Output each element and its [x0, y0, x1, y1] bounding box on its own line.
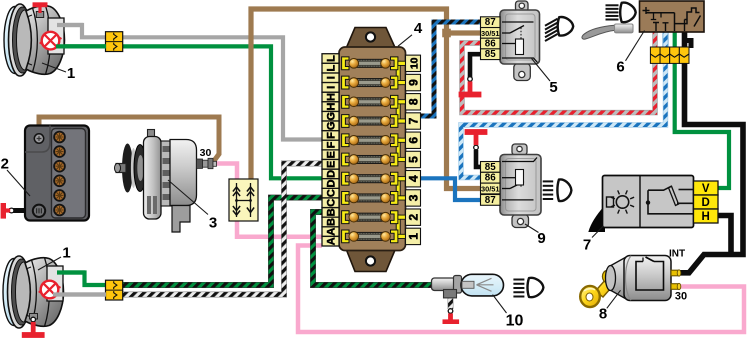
svg-text:3: 3	[407, 194, 421, 201]
svg-text:6: 6	[407, 137, 421, 144]
svg-text:4: 4	[414, 20, 423, 37]
svg-text:C: C	[326, 189, 338, 197]
svg-text:86: 86	[485, 173, 496, 184]
svg-text:F: F	[326, 132, 338, 139]
svg-text:8: 8	[407, 98, 421, 105]
svg-text:A: A	[326, 228, 338, 236]
svg-text:85: 85	[485, 162, 496, 173]
svg-text:8: 8	[599, 306, 607, 323]
svg-text:7: 7	[583, 237, 591, 254]
svg-text:I: I	[326, 86, 338, 89]
svg-text:2: 2	[1, 156, 9, 173]
svg-text:2: 2	[407, 214, 421, 221]
svg-text:85: 85	[485, 49, 496, 60]
svg-text:H: H	[326, 93, 338, 101]
svg-text:H: H	[702, 211, 710, 223]
svg-text:E: E	[326, 161, 338, 168]
svg-text:G: G	[326, 122, 338, 131]
svg-text:H: H	[326, 103, 338, 111]
svg-text:A: A	[326, 237, 338, 245]
svg-text:1: 1	[407, 233, 421, 240]
svg-text:D: D	[326, 170, 338, 178]
svg-text:B: B	[326, 208, 338, 216]
svg-text:30/51: 30/51	[481, 29, 500, 38]
svg-text:87: 87	[485, 195, 496, 206]
svg-text:10: 10	[506, 313, 524, 330]
svg-text:INT: INT	[669, 249, 685, 260]
svg-text:4: 4	[407, 175, 421, 182]
svg-text:9: 9	[407, 79, 421, 86]
svg-text:10: 10	[409, 57, 421, 69]
svg-text:1: 1	[62, 245, 70, 262]
svg-text:F: F	[326, 141, 338, 148]
svg-text:5: 5	[407, 156, 421, 163]
svg-text:E: E	[326, 151, 338, 158]
svg-text:C: C	[326, 199, 338, 207]
svg-text:L: L	[326, 64, 338, 71]
svg-text:86: 86	[485, 39, 496, 50]
svg-text:G: G	[326, 112, 338, 121]
svg-text:D: D	[702, 197, 710, 209]
svg-text:9: 9	[537, 230, 545, 247]
svg-text:V: V	[702, 183, 710, 195]
svg-text:30/51: 30/51	[481, 185, 500, 194]
svg-text:L: L	[326, 55, 338, 62]
svg-text:B: B	[326, 218, 338, 226]
svg-text:30: 30	[675, 291, 687, 303]
svg-text:I: I	[326, 76, 338, 79]
svg-text:1: 1	[67, 65, 75, 82]
svg-text:87: 87	[485, 17, 496, 28]
svg-text:5: 5	[549, 79, 557, 96]
svg-text:3: 3	[209, 215, 217, 232]
svg-text:6: 6	[616, 59, 624, 76]
svg-text:D: D	[326, 179, 338, 187]
svg-text:7: 7	[407, 117, 421, 124]
svg-text:30: 30	[200, 147, 212, 159]
